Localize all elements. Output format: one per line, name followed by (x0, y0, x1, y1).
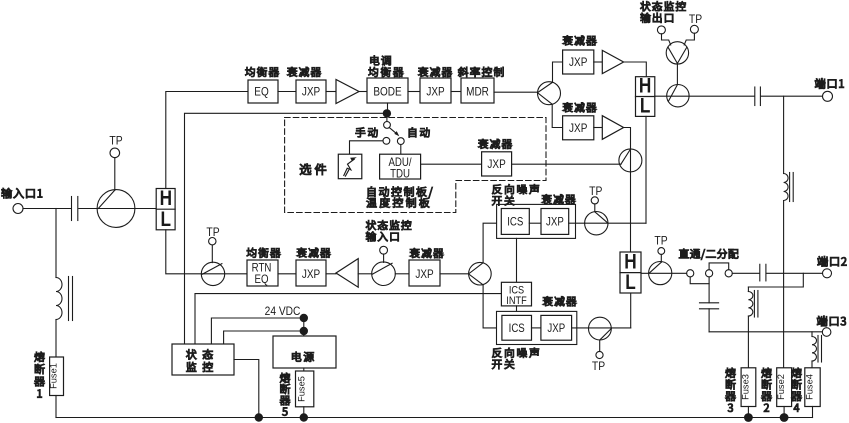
amplifier A4 reverse (points left) (336, 259, 358, 288)
switch common stem (386, 113, 388, 121)
label 状态监控输出口 (640, 1, 686, 23)
wire coupler B to JXP7 (395, 273, 409, 275)
svg-text:TP: TP (206, 226, 219, 239)
reverse TP coupler A (201, 262, 224, 285)
wire choke down to Fuse4 (811, 361, 813, 368)
label 衰减器 ICS2 (543, 296, 577, 306)
wire auto contact to ADU (400, 145, 402, 155)
attenuator JXP2 (418, 67, 452, 103)
label 熔断器1 (34, 352, 44, 398)
wire JXP1-amp1 (326, 91, 336, 93)
label 熔断器4 (791, 368, 801, 412)
wire Fuse2 to bus (783, 407, 785, 418)
wire BODE-JXP2 (408, 91, 420, 93)
wire ICS1-JXP8 (529, 222, 541, 224)
diplex filter H/L 1 (156, 187, 175, 231)
reverse noise switch group 1 frame (497, 204, 576, 238)
power supply box 电源 (273, 336, 336, 368)
wire BODE control stem (387, 103, 389, 113)
switch post b (706, 270, 713, 277)
wire capacitor to diplexer through coupler (79, 208, 156, 210)
switch post c (725, 270, 732, 277)
svg-text:ICS: ICS (507, 216, 523, 229)
junction dot 24V node2 (300, 327, 308, 335)
svg-text:Fuse2: Fuse2 (776, 374, 786, 400)
wire choke to Fuse1 (55, 320, 57, 358)
capacitor C-split (horizontal plates) (700, 303, 719, 309)
variable attenuator (manual) (338, 154, 362, 179)
junction dot Fuse2-bus (780, 413, 789, 422)
wire capacitor to port3 line (708, 309, 710, 332)
wire manual contact to var attenuator (350, 141, 384, 154)
status output terminal right (TP) (684, 13, 702, 45)
wire Fuse4 to bus (812, 407, 814, 418)
label 反向噪声开关 lower (492, 348, 539, 369)
svg-text:JXP: JXP (569, 56, 587, 69)
test point TP-in stem (114, 158, 116, 191)
wire input to capacitor (23, 208, 71, 210)
ICS interface box (501, 282, 531, 307)
attenuator JXP1 (287, 67, 326, 103)
svg-text:JXP: JXP (415, 268, 433, 281)
label 熔断器3 (725, 368, 735, 412)
svg-text:TP: TP (654, 235, 667, 248)
switch blade to auto (389, 128, 399, 137)
wire post c to port2 capacitor (732, 272, 759, 274)
reverse combiner coupler C (469, 262, 492, 285)
input port terminal 输入口1 (2, 188, 43, 214)
wire status monitor to bus (234, 360, 259, 418)
ingress control switch ICS1 (501, 209, 529, 235)
svg-text:TDU: TDU (390, 168, 410, 181)
power tap at port2 wire (748, 273, 803, 287)
label 衰减器 ICS1 (542, 194, 576, 204)
svg-text:L: L (640, 95, 651, 118)
svg-text:TP: TP (109, 135, 122, 148)
wire 24V line 2 (224, 331, 304, 344)
svg-text:JXP: JXP (569, 122, 587, 135)
switch jumper b-c (709, 263, 729, 270)
wire L1 down to reverse chain (166, 230, 247, 274)
combiner coupler CB1 (667, 85, 689, 107)
wire JXP9 to diplexer3 L (572, 293, 631, 328)
fuse Fuse3 (741, 368, 756, 407)
wire amp4 to coupler B (358, 273, 372, 275)
equalizer EQ (245, 67, 279, 103)
svg-text:JXP: JXP (547, 322, 565, 335)
fuse Fuse1 (49, 357, 64, 396)
svg-text:JXP: JXP (426, 86, 444, 99)
status monitor box 状态监控 (172, 344, 234, 375)
svg-text:24 VDC: 24 VDC (265, 305, 301, 318)
wire post a down to split capacitor (690, 277, 709, 284)
label 熔断器5 (280, 373, 290, 416)
wire Fuse5 to bus (303, 407, 305, 418)
wire JXP4-amp3 (594, 127, 603, 129)
status monitor input terminal (380, 246, 388, 262)
wire 24V line 1 (211, 318, 303, 344)
return equalizer RTN EQ (247, 248, 281, 287)
wire status output coupler stem (676, 64, 678, 84)
label 直通/二分配 (679, 249, 738, 260)
reverse coupler B with status input (372, 262, 396, 286)
wire JXP8 to diplexer2 L (569, 116, 646, 223)
test point TP-in terminal (109, 135, 122, 158)
wire 24V to power supply (303, 318, 305, 336)
test point TP-F (654, 235, 667, 262)
label 手动 (356, 127, 378, 137)
label 自动控制板/温度控制板 (366, 187, 432, 208)
splitter SP1 (538, 82, 561, 105)
reverse TP coupler E (589, 317, 612, 340)
junction dot Fuse3-bus (744, 413, 753, 422)
slope control MDR (458, 67, 504, 103)
attenuator JXP9 (541, 315, 572, 340)
svg-text:BODE: BODE (373, 86, 401, 99)
wire capacitor to port1 (761, 95, 822, 97)
wire splitter upper branch (553, 62, 563, 82)
svg-text:TP: TP (589, 186, 602, 199)
svg-text:JXP: JXP (302, 86, 320, 99)
svg-text:L: L (625, 271, 636, 294)
svg-text:Fuse1: Fuse1 (49, 363, 59, 389)
wire JXP6-amp4 (326, 273, 336, 275)
status output terminal left (657, 26, 670, 45)
reverse TP coupler D (585, 212, 608, 235)
wire diplexer2 to port1 through combiner (655, 95, 755, 97)
inductor L3 (port2 choke) (748, 287, 758, 317)
wire amp2 to H of diplexer2 (624, 62, 647, 77)
wire amp3 to AGC coupler riser (624, 128, 631, 149)
attenuator JXP3 upper (563, 36, 597, 75)
switch common contact (384, 122, 391, 129)
wire riser through AGC coupler down to diplexer3 (630, 172, 632, 252)
wire choke down to Fuse2 (783, 201, 785, 368)
svg-text:MDR: MDR (466, 86, 489, 99)
switch post a (687, 270, 694, 277)
reverse noise switch group 2 frame (497, 311, 577, 344)
wire amp1-BODE (359, 91, 367, 93)
wire EQ-JXP1 (278, 91, 296, 93)
attenuator JXP4 lower (563, 102, 597, 139)
output port terminal 端口1 (815, 78, 844, 101)
junction dot Fuse5-bus (300, 413, 308, 421)
option enclosure dashed box 选件 (285, 118, 546, 213)
amplifier A3 lower (602, 116, 623, 140)
attenuator JXP5 (AGC) (478, 139, 512, 176)
svg-text:Fuse4: Fuse4 (805, 374, 815, 400)
svg-text:H: H (624, 251, 636, 274)
electronic equalizer BODE (367, 56, 408, 104)
test point TP-A (206, 226, 219, 262)
wire ICS INTF to ICS2 group (516, 306, 518, 312)
wire post b down (708, 277, 710, 303)
wire Fuse1 to power bus (55, 396, 57, 418)
attenuator JXP8 (541, 209, 569, 235)
wire MDR to splitter (494, 91, 538, 93)
capacitor C-port1 (755, 87, 761, 106)
ingress control switch ICS2 (502, 315, 532, 340)
wire choke down to Fuse3 (747, 316, 749, 368)
junction dot 24V node1 (300, 314, 308, 322)
fuse Fuse2 (776, 368, 791, 407)
wire control node to status monitor (185, 113, 387, 344)
test point TP-E (592, 340, 605, 373)
svg-text:JXP: JXP (546, 216, 564, 229)
wire capacitor to port2 (767, 272, 823, 274)
wire RTNEQ-JXP6 (278, 273, 296, 275)
wire JXP7 to reverse combiner (440, 273, 469, 275)
power bus wire (bottom) (56, 417, 813, 419)
wire Fuse3 to bus (747, 407, 749, 418)
test point TP-D (589, 186, 602, 212)
switch manual contact (383, 137, 390, 144)
inductor L1 (RF choke) (56, 277, 73, 321)
label 反向噪声开关 upper (492, 184, 539, 205)
label 24 VDC (265, 305, 301, 318)
junction dot status-bus (255, 413, 263, 421)
amplifier A1 (336, 80, 359, 104)
wire port3 feed line (709, 331, 822, 333)
label 自动 (409, 127, 430, 137)
svg-text:ICS: ICS (509, 322, 525, 335)
wire H1 up to forward chain (166, 92, 248, 189)
AGC pickoff coupler (619, 149, 642, 172)
wire JXP3-amp2 (594, 61, 603, 63)
svg-text:TP: TP (689, 13, 702, 26)
amplifier A2 upper (602, 50, 623, 73)
wire diplexer3 to switch through coupler F (641, 272, 687, 274)
wire ICS1 group to ICS INTF (516, 238, 518, 282)
svg-text:EQ: EQ (254, 86, 269, 99)
attenuator JXP7 (409, 248, 443, 286)
output port terminal 端口2 (818, 256, 847, 278)
junction dot BODE control node (383, 109, 391, 117)
switch auto contact (397, 138, 404, 145)
inductor L2 (port1 choke) (784, 173, 794, 202)
power tap wire at input (55, 209, 57, 278)
fuse Fuse5 (296, 371, 314, 407)
output coupler F (649, 262, 672, 285)
svg-text:Fuse3: Fuse3 (741, 374, 751, 400)
attenuator JXP6 (296, 248, 330, 286)
status monitor output coupler (666, 42, 688, 64)
diplex filter H/L 3 (620, 251, 641, 295)
label 熔断器2 (761, 368, 771, 412)
wire JXP5 to AGC coupler (512, 163, 621, 165)
svg-text:JXP: JXP (302, 268, 320, 281)
power tap wire at port1 (783, 96, 785, 173)
capacitor C-port2 (760, 264, 766, 281)
wire JXP2-MDR (451, 91, 461, 93)
wire power supply to Fuse5 (303, 368, 305, 371)
svg-text:Fuse5: Fuse5 (297, 376, 307, 402)
wire ADU to JXP5 (421, 163, 482, 165)
wire splitter lower branch (552, 104, 562, 127)
wire combiner up to ICS1 (483, 223, 501, 263)
wire ICS2-JXP9 (532, 327, 541, 329)
svg-text:H: H (160, 187, 172, 210)
wire combiner down to ICS2 (483, 285, 502, 328)
capacitor C-in (DC block) (72, 197, 78, 221)
label 状态监控输入口 (366, 220, 412, 241)
automatic/thermal control unit ADU/TDU (380, 154, 421, 180)
svg-text:L: L (161, 208, 172, 231)
wire ICS INTF to status monitor (195, 294, 501, 344)
fuse Fuse4 (805, 368, 821, 407)
inductor L4 (port3 choke) (812, 332, 822, 362)
directional coupler TAP-in (97, 190, 135, 228)
output port terminal 端口3 (817, 316, 846, 337)
svg-text:JXP: JXP (487, 158, 505, 171)
svg-text:TP: TP (592, 360, 605, 373)
svg-text:EQ: EQ (255, 273, 269, 286)
diplex filter H/L 2 (636, 75, 655, 118)
